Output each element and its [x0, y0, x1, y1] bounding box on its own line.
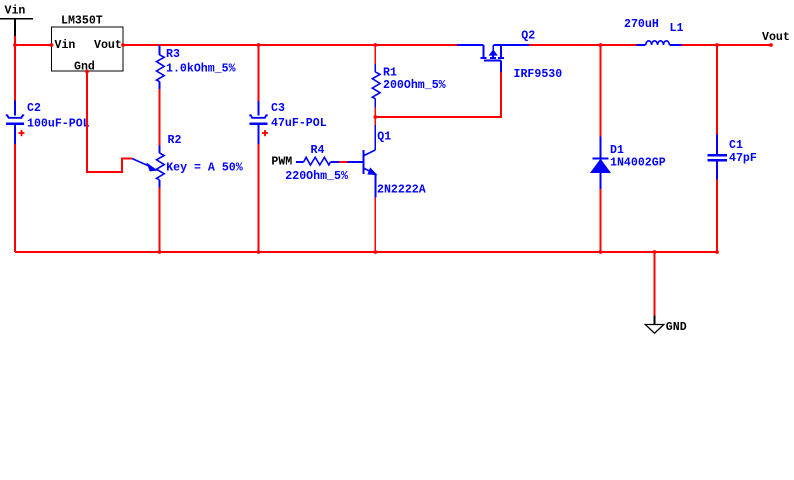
- svg-text:47pF: 47pF: [729, 152, 757, 165]
- transistor Q2 IRF9530: [457, 30, 562, 81]
- wire gate node to Q2 gate: [375, 72, 501, 117]
- capacitor C3: [249, 101, 326, 144]
- wire C3 branch top: [258, 45, 260, 101]
- svg-text:47uF-POL: 47uF-POL: [271, 117, 327, 130]
- svg-text:D1: D1: [610, 144, 624, 157]
- wire D1 bottom to bottom rail: [600, 189, 602, 252]
- svg-text:200Ohm_5%: 200Ohm_5%: [383, 79, 446, 92]
- svg-text:2N2222A: 2N2222A: [377, 184, 426, 197]
- wire Vout pin to top rail: [123, 44, 457, 46]
- wire Q2 drain to L1: [529, 44, 637, 46]
- wire L1 to Vout terminal: [682, 44, 772, 46]
- svg-text:GND: GND: [666, 321, 687, 334]
- wire C2 branch top: [14, 45, 16, 101]
- wire GND tap: [654, 252, 656, 316]
- capacitor C1: [708, 134, 757, 179]
- wire Vin stem red: [14, 36, 16, 45]
- capacitor C2: [6, 101, 90, 145]
- svg-text:R1: R1: [383, 67, 397, 80]
- resistor R3: [157, 45, 236, 89]
- wire R3 bottom to R2 top: [159, 89, 161, 146]
- wire Q1 emitter to bottom rail: [374, 198, 376, 253]
- ground GND symbol: [645, 316, 686, 334]
- regulator U1 LM350T box: [52, 15, 124, 74]
- diode D1 1N4002GP: [591, 137, 666, 190]
- svg-text:R4: R4: [311, 144, 325, 157]
- potentiometer R2: [132, 134, 243, 187]
- svg-text:Vin: Vin: [5, 5, 26, 18]
- wire C1 branch top: [716, 45, 718, 134]
- wire R4 to Q1 base: [339, 161, 348, 163]
- wire LM350T Gnd to R2 wiper: [87, 72, 132, 173]
- transistor Q1 2N2222A: [348, 125, 426, 198]
- svg-text:100uF-POL: 100uF-POL: [27, 118, 90, 131]
- svg-text:1.0kOhm_5%: 1.0kOhm_5%: [166, 63, 236, 76]
- svg-text:R2: R2: [168, 134, 182, 147]
- node Vin terminal: [0, 5, 33, 36]
- wire bottom rail: [15, 251, 717, 253]
- wire Vin node to LM350T Vin pin: [15, 44, 52, 46]
- wire R2 bottom to bottom rail: [159, 187, 161, 252]
- svg-text:LM350T: LM350T: [61, 15, 103, 28]
- wire C3 bottom to bottom rail: [258, 144, 260, 252]
- svg-text:Vout: Vout: [94, 39, 122, 52]
- svg-text:Q2: Q2: [521, 30, 535, 43]
- resistor R4: [285, 144, 348, 183]
- svg-text:C1: C1: [729, 139, 743, 152]
- svg-text:Vout: Vout: [762, 31, 790, 44]
- svg-text:C2: C2: [27, 102, 41, 115]
- svg-text:C3: C3: [271, 102, 285, 115]
- svg-text:PWM: PWM: [271, 156, 292, 169]
- wire gate node to Q1 collector: [374, 117, 376, 125]
- svg-text:220Ohm_5%: 220Ohm_5%: [285, 170, 348, 183]
- inductor L1: [624, 18, 683, 45]
- svg-text:Key = A 50%: Key = A 50%: [166, 162, 243, 175]
- wire C2 bottom to bottom rail: [14, 144, 16, 252]
- wire D1 branch top: [600, 45, 602, 137]
- svg-text:270uH: 270uH: [624, 18, 659, 31]
- wire R1 bottom to gate node: [374, 108, 376, 118]
- svg-text:R3: R3: [166, 48, 180, 61]
- resistor R1: [372, 64, 445, 108]
- wire C1 bottom to bottom rail: [716, 179, 718, 252]
- svg-text:L1: L1: [670, 22, 684, 35]
- svg-text:Vin: Vin: [55, 39, 76, 52]
- svg-text:Gnd: Gnd: [74, 60, 95, 73]
- node junction dots: [13, 43, 773, 254]
- svg-text:Q1: Q1: [377, 131, 391, 144]
- wire R1 branch top: [374, 45, 376, 64]
- svg-text:1N4002GP: 1N4002GP: [610, 157, 666, 170]
- svg-text:IRF9530: IRF9530: [514, 68, 563, 81]
